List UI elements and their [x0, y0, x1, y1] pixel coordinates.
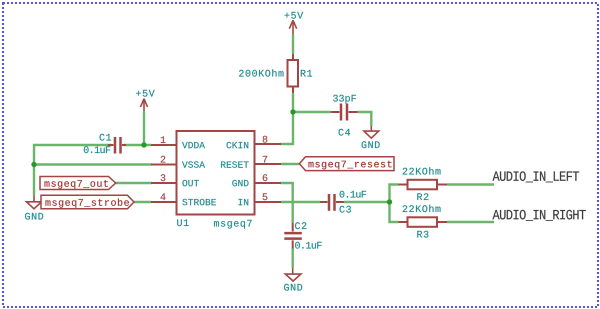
resistor R1 — [288, 54, 299, 93]
pin name RESET — [221, 161, 249, 167]
wire left +5V down to node B — [143, 111, 145, 146]
wire node C to pin 2 — [34, 163, 152, 165]
pin name OUT — [182, 180, 198, 186]
C4 value 33pF — [333, 95, 356, 104]
C1 ref — [100, 134, 112, 141]
pin 7 — [255, 163, 282, 165]
msgeq7_strobe text — [45, 198, 128, 207]
wire C3 to node D — [344, 201, 390, 203]
wire C2 to gnd — [292, 248, 294, 268]
+5V left text — [136, 90, 155, 97]
hierarchical label msgeq7_resest shape — [299, 157, 394, 171]
pin 6 — [255, 182, 282, 184]
wire +5V top to R1 — [292, 35, 294, 55]
pin name VDDA — [182, 142, 205, 148]
pin name IN — [238, 199, 248, 205]
ground bottom — [285, 268, 301, 281]
resistor R3 — [399, 217, 448, 227]
power +5V top symbol — [289, 20, 296, 34]
wire strobe flag to pin 4 — [134, 201, 152, 203]
wire R3 to AUDIO_IN_RIGHT — [447, 221, 494, 223]
pin 2 — [151, 164, 177, 166]
pin 4 — [151, 201, 177, 203]
U1 reference — [177, 219, 188, 226]
R1 value 200KOhm — [239, 69, 283, 76]
pin name CKIN — [227, 142, 249, 148]
hierarchical label msgeq7_strobe shape — [41, 195, 134, 208]
pin 1 — [151, 144, 177, 146]
capacitor C4 — [331, 104, 358, 121]
pin number 8 — [263, 136, 268, 143]
pin number 2 — [161, 156, 166, 163]
wire node D down to R3 — [390, 202, 399, 222]
pin number 1 — [161, 136, 166, 143]
wire R2 to AUDIO_IN_LEFT — [447, 183, 494, 185]
R2 ref — [417, 193, 428, 200]
pin 5 — [255, 201, 282, 203]
node B junction — [141, 142, 146, 147]
capacitor C2 — [284, 222, 302, 248]
+5V top text — [285, 12, 304, 19]
C2 value 0.1uF — [295, 242, 321, 249]
ground near C4 — [364, 126, 379, 138]
GND text bottom — [284, 284, 302, 291]
label AUDIO_IN_RIGHT — [493, 210, 586, 221]
wire node A to C4 — [293, 111, 331, 113]
wire node D up to R2 — [390, 185, 399, 203]
node C junction — [31, 162, 36, 167]
msgeq7_out text — [44, 180, 107, 189]
ground left — [27, 196, 42, 209]
C4 ref — [339, 129, 351, 136]
pin number 3 — [161, 174, 166, 181]
pin 3 — [151, 182, 177, 184]
wire C4 to gnd corner — [358, 112, 372, 126]
wire pin 7 to resest flag — [281, 163, 300, 165]
U1 value msgeq7 — [214, 220, 252, 229]
R1 ref — [301, 70, 312, 77]
resistor R2 — [399, 180, 448, 190]
pin name GND — [232, 180, 248, 186]
C3 ref — [340, 206, 351, 213]
pin number 7 — [263, 156, 267, 163]
R2 value 22KOhm — [403, 167, 441, 174]
IC U1 body — [177, 131, 255, 215]
hierarchical label msgeq7_out shape — [40, 177, 116, 190]
pin number 5 — [263, 193, 268, 200]
msgeq7_resest text — [308, 161, 391, 170]
label AUDIO_IN_LEFT — [493, 171, 580, 182]
capacitor C3 — [320, 194, 344, 211]
wire C1 to node B — [124, 144, 152, 146]
wire node A down to pin 8 — [281, 112, 294, 144]
pin number 4 — [161, 193, 166, 200]
pin name VSSA — [182, 161, 205, 167]
GND text left — [25, 213, 43, 220]
pin name STROBE — [182, 199, 216, 205]
wire pin 6 down to C2 — [281, 183, 293, 222]
C1 value 0.1uF — [84, 146, 111, 153]
wire out flag to pin 3 — [116, 182, 152, 184]
wire pin 5 to C3 — [281, 201, 321, 203]
wire C1 left to node C corner — [34, 145, 112, 165]
node D junction — [387, 199, 392, 204]
pin number 6 — [263, 174, 268, 181]
capacitor C1 — [108, 137, 126, 154]
C2 ref — [295, 222, 306, 229]
pin 8 — [255, 143, 282, 145]
R3 value 22KOhm — [403, 205, 441, 212]
GND text near C4 — [362, 141, 380, 148]
R3 ref — [417, 231, 428, 238]
power +5V left symbol — [141, 99, 148, 112]
node A junction — [290, 109, 295, 114]
C3 value 0.1uF — [340, 191, 366, 198]
wire node C down to gnd — [33, 165, 35, 196]
wire R1 to node A — [292, 93, 294, 112]
